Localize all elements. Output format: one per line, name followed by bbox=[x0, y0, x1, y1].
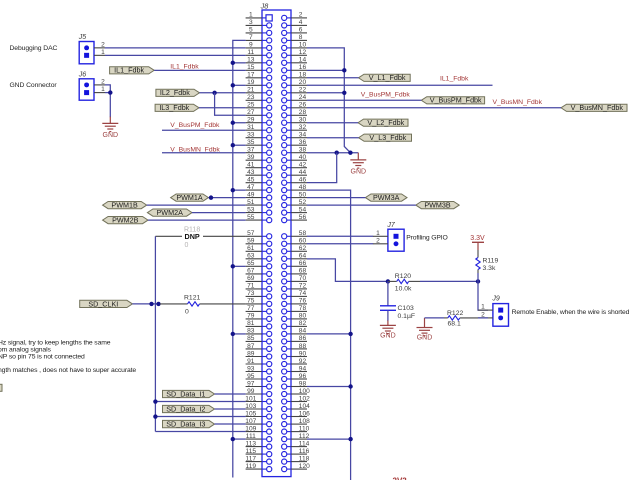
wire SD_Data_I3 to J8.107 bbox=[215, 423, 246, 425]
svg-text:88: 88 bbox=[299, 343, 307, 350]
port PWM1A bbox=[171, 193, 209, 202]
svg-text:13: 13 bbox=[247, 57, 255, 64]
J8 pin 86 bbox=[282, 335, 307, 344]
J8 pin 54 bbox=[282, 206, 307, 215]
junction gnd a bbox=[348, 151, 352, 155]
wire bus to J8.111 bbox=[233, 438, 246, 440]
J8 pin 65 bbox=[246, 260, 272, 269]
wire J8.58 to J7.1 bbox=[307, 235, 373, 237]
svg-text:44: 44 bbox=[299, 169, 307, 176]
svg-text:SD_CLKI: SD_CLKI bbox=[88, 299, 118, 308]
wire IL2_Fdbk to J8.21 bbox=[200, 92, 246, 94]
svg-text:0.1µF: 0.1µF bbox=[398, 313, 416, 320]
J8 pin 105 bbox=[245, 410, 272, 419]
J9 pin 2 bbox=[478, 311, 503, 320]
J8 pin 103 bbox=[245, 403, 272, 412]
J8 pin 48 bbox=[282, 184, 307, 193]
wire R120 to node bbox=[420, 280, 478, 282]
junction bus at pin 111 bbox=[231, 437, 235, 441]
port SD_Data_I3 bbox=[163, 419, 215, 428]
svg-text:59: 59 bbox=[247, 238, 255, 245]
J8 pin 16 bbox=[282, 64, 307, 73]
wire SD bus to J8.105 bbox=[155, 416, 245, 418]
junction J6 gnd bbox=[108, 90, 112, 94]
connector J7 body bbox=[388, 229, 404, 251]
J8 pin 36 bbox=[282, 139, 307, 148]
ground GND symbol (C103) bbox=[380, 325, 396, 333]
wire node to J9.1 bbox=[478, 281, 488, 310]
wire J8.16 to GND bus bbox=[307, 69, 344, 71]
wire IL1_Fdbk to J8.15 bbox=[154, 69, 245, 71]
J8 pin 29 bbox=[246, 117, 272, 126]
svg-text:23: 23 bbox=[247, 94, 255, 101]
J8 pin 55 bbox=[246, 214, 272, 223]
svg-text:86: 86 bbox=[299, 335, 307, 342]
J8 pin 2 bbox=[282, 12, 307, 21]
wire J8.18 to V_L1_Fdbk bbox=[307, 77, 359, 79]
junction bus at pin 65 bbox=[231, 264, 235, 268]
wire J8.50 to PWM3A bbox=[307, 197, 365, 199]
junction SD net a bbox=[149, 302, 153, 306]
J8 pin 75 bbox=[246, 298, 272, 307]
svg-text:GND: GND bbox=[380, 332, 396, 339]
J8 pin 101 bbox=[245, 395, 272, 404]
J8 pin 43 bbox=[246, 169, 272, 178]
J8 pin 85 bbox=[246, 335, 272, 344]
svg-text:102: 102 bbox=[299, 395, 310, 402]
J8 pin 93 bbox=[246, 365, 272, 374]
port V_L1_Fdbk bbox=[359, 73, 411, 82]
J8 pin 61 bbox=[246, 245, 272, 254]
connector J5 body bbox=[79, 42, 94, 64]
J8 pin 21 bbox=[246, 87, 272, 96]
svg-text:SD_Data_I1: SD_Data_I1 bbox=[166, 389, 205, 398]
wire GND bus right (J8.10) bbox=[307, 48, 350, 153]
J8 pin 119 bbox=[246, 463, 272, 472]
J8 pin 96 bbox=[282, 373, 307, 382]
svg-text:19: 19 bbox=[247, 79, 255, 86]
svg-text:V_BusPM_Fdbk: V_BusPM_Fdbk bbox=[430, 96, 482, 105]
J8 pin 109 bbox=[245, 425, 272, 434]
svg-text:J6: J6 bbox=[78, 72, 87, 79]
svg-text:1: 1 bbox=[101, 86, 105, 93]
svg-text:Remote Enable, when the wire i: Remote Enable, when the wire is shorted bbox=[512, 309, 630, 316]
J8 pin 39 bbox=[246, 154, 272, 163]
port PWM3A bbox=[365, 193, 407, 202]
svg-text:78: 78 bbox=[299, 305, 307, 312]
J8 pin 6 bbox=[282, 27, 307, 36]
J8 pin 5 bbox=[246, 27, 272, 36]
wire J8.24 to V_BusPM_Fdbk bbox=[307, 99, 421, 101]
svg-text:SD_Data_I2: SD_Data_I2 bbox=[166, 404, 205, 413]
wire J5.2 to J8.9 bbox=[105, 47, 246, 49]
junction at pin 101 bbox=[153, 399, 157, 403]
svg-text:45: 45 bbox=[247, 177, 255, 184]
svg-text:40: 40 bbox=[299, 154, 307, 161]
J8 pin 46 bbox=[282, 177, 307, 186]
J8 pin 49 bbox=[246, 191, 272, 200]
J8 pin 97 bbox=[246, 380, 272, 389]
junction bus at pin 13 bbox=[231, 61, 235, 65]
J8 pin 31 bbox=[246, 124, 272, 133]
J8 pin 63 bbox=[246, 253, 272, 262]
svg-text:107: 107 bbox=[245, 418, 256, 425]
svg-text:V_BusMN_Fdbk: V_BusMN_Fdbk bbox=[493, 99, 543, 106]
svg-text:6: 6 bbox=[299, 27, 303, 34]
svg-text:90: 90 bbox=[299, 350, 307, 357]
svg-text:PWM1B: PWM1B bbox=[111, 201, 138, 210]
svg-text:68.1: 68.1 bbox=[448, 321, 461, 328]
J8 pin 34 bbox=[282, 132, 307, 141]
svg-text:77: 77 bbox=[247, 305, 255, 312]
J8 pin 30 bbox=[282, 117, 307, 126]
J8 pin 50 bbox=[282, 191, 307, 200]
connector J9 body bbox=[493, 304, 509, 327]
port V_L2_Fdbk bbox=[358, 118, 408, 127]
J8 pin 69 bbox=[246, 275, 272, 284]
svg-text:25: 25 bbox=[247, 102, 255, 109]
J8 pin 28 bbox=[282, 109, 307, 118]
wire J8.34 to V_L3_Fdbk bbox=[307, 137, 359, 139]
wire bus to J8.19 bbox=[233, 84, 246, 86]
svg-text:89: 89 bbox=[247, 350, 255, 357]
svg-text:10.0k: 10.0k bbox=[395, 286, 412, 293]
port IL3_Fdbk bbox=[155, 103, 199, 112]
J8 pin 37 bbox=[246, 147, 272, 156]
junction at pin 16 bbox=[342, 68, 346, 72]
svg-text:47: 47 bbox=[247, 184, 255, 191]
svg-text:V_BusPM_Fdbk: V_BusPM_Fdbk bbox=[170, 122, 220, 129]
wire J8.20 IL1 net bbox=[307, 84, 493, 86]
svg-text:3: 3 bbox=[249, 19, 253, 26]
J8 pin 40 bbox=[282, 154, 307, 163]
wire R119 to node bbox=[477, 273, 479, 281]
svg-text:39: 39 bbox=[247, 154, 255, 161]
junction at pin 84 bbox=[348, 332, 352, 336]
svg-text:69: 69 bbox=[247, 275, 255, 282]
J8 pin 20 bbox=[282, 79, 307, 88]
wire J8.38 to GND bbox=[307, 152, 358, 154]
port V_BusPM_Fdbk bbox=[421, 96, 484, 105]
J8 pin 18 bbox=[282, 72, 307, 81]
svg-text:V_BusMN_Fdbk: V_BusMN_Fdbk bbox=[571, 103, 624, 112]
svg-text:75: 75 bbox=[247, 298, 255, 305]
J8 pin 60 bbox=[282, 238, 307, 247]
svg-text:41: 41 bbox=[247, 162, 255, 169]
svg-text:0: 0 bbox=[185, 308, 189, 315]
svg-text:IL3_Fdbk: IL3_Fdbk bbox=[159, 103, 189, 112]
J8 pin 80 bbox=[282, 313, 307, 322]
J8 pin 117 bbox=[246, 455, 272, 464]
svg-text:105: 105 bbox=[245, 410, 256, 417]
svg-text:74: 74 bbox=[299, 290, 307, 297]
svg-text:IL1_Fdbk: IL1_Fdbk bbox=[440, 76, 469, 83]
svg-text:V_L1_Fdbk: V_L1_Fdbk bbox=[369, 73, 406, 82]
svg-text:42: 42 bbox=[299, 162, 307, 169]
svg-text:IL2_Fdbk: IL2_Fdbk bbox=[160, 88, 190, 97]
port PWM2B bbox=[103, 216, 148, 225]
svg-text:83: 83 bbox=[247, 328, 255, 335]
J8 pin 115 bbox=[246, 448, 272, 457]
wire IL2_Fdbk to J8.27 bbox=[215, 93, 246, 115]
svg-text:R122: R122 bbox=[447, 310, 463, 317]
svg-text:10: 10 bbox=[299, 42, 307, 49]
J7 pin 1 bbox=[373, 230, 399, 239]
J8 pin 38 bbox=[282, 147, 307, 156]
svg-text:32: 32 bbox=[299, 124, 307, 131]
ground GND (R122) bbox=[424, 318, 426, 328]
J8 pin 27 bbox=[246, 109, 272, 118]
J8 pin 32 bbox=[282, 124, 307, 133]
svg-text:71: 71 bbox=[247, 283, 255, 290]
J8 pin 99 bbox=[246, 388, 272, 397]
wire SD_CLKI bbox=[132, 303, 160, 305]
svg-text:12: 12 bbox=[299, 49, 307, 56]
J8 pin 10 bbox=[282, 42, 307, 51]
J8 pin 57 bbox=[246, 230, 272, 239]
port IL2_Fdbk bbox=[156, 88, 200, 97]
svg-text:67: 67 bbox=[247, 268, 255, 275]
J8 pin 64 bbox=[282, 253, 307, 262]
J8 pin 98 bbox=[282, 380, 307, 389]
J8 pin 91 bbox=[246, 358, 272, 367]
junction gnd b bbox=[335, 151, 339, 155]
svg-text:48: 48 bbox=[299, 184, 307, 191]
junction R120 left bbox=[386, 279, 390, 283]
port PWM2A bbox=[147, 208, 192, 217]
svg-text:103: 103 bbox=[245, 403, 256, 410]
J8 pin 90 bbox=[282, 350, 307, 359]
svg-text:94: 94 bbox=[299, 365, 307, 372]
J8 pin 110 bbox=[282, 425, 310, 434]
J8 pin 76 bbox=[282, 298, 307, 307]
J8 pin 77 bbox=[246, 305, 272, 314]
wire J8.60 to J7.2 bbox=[307, 243, 373, 245]
J8 pin 1 bbox=[246, 12, 273, 21]
J8 pin 71 bbox=[246, 283, 272, 292]
junction at pin 112 bbox=[348, 437, 352, 441]
svg-text:PWM3A: PWM3A bbox=[373, 193, 400, 202]
resistor R121 zigzag bbox=[188, 302, 200, 306]
svg-text:IL1_Fdbk: IL1_Fdbk bbox=[114, 66, 144, 75]
J8 pin 107 bbox=[245, 418, 272, 427]
svg-text:PWM2A: PWM2A bbox=[157, 208, 184, 217]
svg-text:SD_Data_I3: SD_Data_I3 bbox=[166, 419, 205, 428]
ground GND symbol (R122) bbox=[417, 328, 433, 336]
svg-text:1: 1 bbox=[249, 12, 253, 19]
junction SD net b bbox=[156, 302, 160, 306]
svg-text:119: 119 bbox=[246, 463, 257, 470]
J8 pin 108 bbox=[282, 418, 311, 427]
J8 pin 81 bbox=[246, 320, 272, 329]
svg-text:113: 113 bbox=[246, 440, 257, 447]
svg-text:53: 53 bbox=[247, 206, 255, 213]
J8 pin 3 bbox=[246, 19, 272, 28]
J8 pin 66 bbox=[282, 260, 307, 269]
J9 pin 1 bbox=[478, 304, 503, 313]
svg-text:96: 96 bbox=[299, 373, 307, 380]
svg-text:PWM1A: PWM1A bbox=[176, 193, 203, 202]
port SD_CLKI bbox=[80, 299, 133, 308]
wire J8.30 to V_L2_Fdbk bbox=[307, 122, 358, 124]
svg-text:1: 1 bbox=[376, 230, 380, 237]
svg-text:110: 110 bbox=[299, 425, 310, 432]
svg-text:V_L3_Fdbk: V_L3_Fdbk bbox=[369, 133, 406, 142]
svg-text:28: 28 bbox=[299, 109, 307, 116]
svg-text:17: 17 bbox=[247, 72, 255, 79]
J8 pin 70 bbox=[282, 275, 307, 284]
svg-text:38: 38 bbox=[299, 147, 307, 154]
wire J8.98 bbox=[307, 386, 351, 388]
svg-text:R119: R119 bbox=[483, 257, 499, 264]
svg-text:63: 63 bbox=[247, 253, 255, 260]
svg-text:21: 21 bbox=[247, 87, 255, 94]
svg-text:108: 108 bbox=[299, 418, 310, 425]
svg-text:72: 72 bbox=[299, 283, 307, 290]
J8 pin 67 bbox=[246, 268, 272, 277]
junction bus at pin 47 bbox=[231, 188, 235, 192]
svg-text:58: 58 bbox=[299, 230, 307, 237]
svg-text:1: 1 bbox=[481, 304, 485, 311]
resistor R122 zigzag bbox=[448, 316, 460, 320]
J8 pin 100 bbox=[282, 388, 311, 397]
svg-text:37: 37 bbox=[247, 147, 255, 154]
junction at pin 105 bbox=[153, 414, 157, 418]
svg-text:93: 93 bbox=[247, 365, 255, 372]
wire V_BusMN_Fdbk to J8.37 bbox=[162, 152, 246, 154]
svg-text:Hz signal, try to keep lengths: Hz signal, try to keep lengths the same bbox=[0, 339, 111, 346]
svg-text:22: 22 bbox=[299, 87, 307, 94]
svg-text:84: 84 bbox=[299, 328, 307, 335]
J8 pin 45 bbox=[246, 177, 272, 186]
svg-text:DNP: DNP bbox=[185, 232, 200, 241]
J8 pin 106 bbox=[282, 410, 311, 419]
wire bus to J8.83 bbox=[233, 333, 246, 335]
J8 pin 42 bbox=[282, 162, 307, 171]
J8 pin 58 bbox=[282, 230, 307, 239]
wire bus to J8.13 bbox=[233, 62, 246, 64]
wire J8.112 bbox=[307, 438, 351, 440]
wire J5.1 to J8.11 bbox=[105, 54, 246, 56]
J8 pin 14 bbox=[282, 57, 307, 66]
svg-text:82: 82 bbox=[299, 320, 307, 327]
svg-text:80: 80 bbox=[299, 313, 307, 320]
wire PWM1B to J8.51 bbox=[147, 204, 246, 206]
J8 pin 4 bbox=[282, 19, 307, 28]
clipped port at left edge bbox=[0, 384, 2, 391]
svg-text:79: 79 bbox=[247, 313, 255, 320]
svg-text:91: 91 bbox=[247, 358, 255, 365]
J8 pin 111 bbox=[246, 433, 272, 442]
J8 pin 23 bbox=[246, 94, 272, 103]
port SD_Data_I2 bbox=[163, 404, 215, 413]
wire SD bus down bbox=[154, 304, 156, 432]
resistor R119 bbox=[477, 250, 479, 273]
wire J8.26 to V_BusMN_Fdbk bbox=[307, 107, 561, 109]
svg-text:20: 20 bbox=[299, 79, 307, 86]
wire SD_Data_I1 to J8.99 bbox=[215, 393, 246, 395]
wire bus to J8.47 bbox=[233, 189, 246, 191]
svg-text:14: 14 bbox=[299, 57, 307, 64]
svg-text:30: 30 bbox=[299, 117, 307, 124]
J8 pin 33 bbox=[246, 132, 272, 141]
svg-text:85: 85 bbox=[247, 335, 255, 342]
svg-text:54: 54 bbox=[299, 206, 307, 213]
svg-text:117: 117 bbox=[246, 455, 257, 462]
svg-text:36: 36 bbox=[299, 139, 307, 146]
svg-text:GND: GND bbox=[103, 132, 119, 139]
port PWM1B bbox=[103, 201, 147, 210]
J8 pin 51 bbox=[246, 199, 272, 208]
svg-text:2: 2 bbox=[299, 12, 303, 19]
svg-text:3V3: 3V3 bbox=[393, 477, 408, 480]
junction bus at pin 19 bbox=[231, 83, 235, 87]
svg-text:IL1_Fdbk: IL1_Fdbk bbox=[170, 64, 199, 71]
wire J8.46 to GND bbox=[307, 153, 337, 183]
svg-text:3.3k: 3.3k bbox=[483, 265, 496, 272]
J6 pin 2 bbox=[84, 78, 105, 87]
svg-text:116: 116 bbox=[299, 448, 310, 455]
svg-text:3.3V: 3.3V bbox=[470, 235, 485, 242]
svg-text:1: 1 bbox=[101, 49, 105, 56]
svg-text:76: 76 bbox=[299, 298, 307, 305]
wire SD_Data_I2 to J8.103 bbox=[215, 408, 246, 410]
J8 pin 113 bbox=[246, 440, 272, 449]
J8 pin 59 bbox=[246, 238, 272, 247]
svg-text:GND Connector: GND Connector bbox=[10, 82, 58, 89]
J8 pin 12 bbox=[282, 49, 307, 58]
wire node to C103 bbox=[387, 281, 389, 305]
wire IL3_Fdbk to J8.25 bbox=[199, 107, 246, 109]
svg-text:C103: C103 bbox=[398, 305, 414, 312]
svg-text:51: 51 bbox=[247, 199, 255, 206]
ground GND (C103) bbox=[387, 321, 389, 326]
J8 pin 11 bbox=[246, 49, 272, 58]
J8 pin 82 bbox=[282, 320, 307, 329]
junction bus at pin 29 bbox=[231, 121, 235, 125]
junction IL2 branch bbox=[212, 91, 216, 95]
J8 pin 9 bbox=[246, 42, 272, 51]
ground GND (J6) bbox=[109, 117, 111, 124]
svg-text:5: 5 bbox=[249, 27, 253, 34]
svg-text:118: 118 bbox=[299, 455, 310, 462]
J8 pin 22 bbox=[282, 87, 307, 96]
wire PWM2B to J8.55 bbox=[148, 219, 246, 221]
svg-text:J9: J9 bbox=[491, 295, 500, 302]
J8 pin 89 bbox=[246, 350, 272, 359]
svg-text:81: 81 bbox=[247, 320, 255, 327]
svg-text:26: 26 bbox=[299, 102, 307, 109]
J8 pin 35 bbox=[246, 139, 272, 148]
svg-text:95: 95 bbox=[247, 373, 255, 380]
svg-text:Profiling GPIO: Profiling GPIO bbox=[406, 235, 447, 242]
svg-text:109: 109 bbox=[245, 425, 256, 432]
J8 pin 104 bbox=[282, 403, 311, 412]
connector J8 body bbox=[262, 10, 291, 477]
J8 pin 13 bbox=[246, 57, 272, 66]
comment text lines bbox=[0, 339, 136, 374]
J7 pin 2 bbox=[373, 237, 399, 246]
J8 pin 41 bbox=[246, 162, 272, 171]
svg-text:111: 111 bbox=[246, 433, 256, 440]
svg-text:7: 7 bbox=[249, 34, 253, 41]
resistor R119 zigzag bbox=[476, 258, 480, 270]
svg-text:Debugging DAC: Debugging DAC bbox=[10, 45, 58, 52]
svg-text:98: 98 bbox=[299, 380, 307, 387]
junction PWM1A bbox=[209, 195, 213, 199]
svg-text:62: 62 bbox=[299, 245, 307, 252]
svg-text:0: 0 bbox=[185, 242, 189, 249]
